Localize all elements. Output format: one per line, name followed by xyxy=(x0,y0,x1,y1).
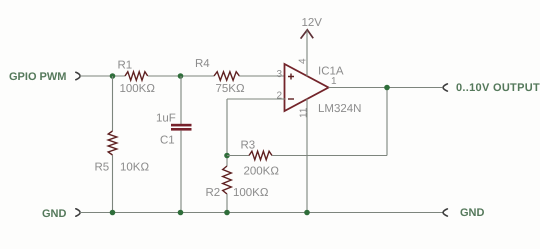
wire op-amp pin 11 to GND xyxy=(306,99,308,213)
supply 12V arrow xyxy=(301,30,314,39)
wire inverting node vertical upper xyxy=(226,99,228,166)
svg-text:C1: C1 xyxy=(160,135,175,147)
svg-text:LM324N: LM324N xyxy=(318,103,361,115)
svg-text:75KΩ: 75KΩ xyxy=(216,83,245,95)
svg-text:100KΩ: 100KΩ xyxy=(233,187,269,199)
wire GPIO PWM to R1 xyxy=(80,75,125,77)
wire R5 branch vertical xyxy=(112,76,114,131)
svg-text:3: 3 xyxy=(277,69,283,80)
node junction A (R1 left / R5 top) xyxy=(110,73,116,79)
resistor R3 xyxy=(249,151,272,160)
resistor R5 xyxy=(108,131,117,155)
wire GND bus xyxy=(80,212,443,214)
resistor R2 xyxy=(223,166,232,194)
wire op-amp pin 2 horizontal xyxy=(227,98,285,100)
svg-text:R4: R4 xyxy=(195,58,210,70)
wire R5 to GND xyxy=(112,155,114,213)
svg-text:R3: R3 xyxy=(241,140,256,152)
wire op-amp output xyxy=(329,87,443,89)
svg-text:11: 11 xyxy=(299,107,310,118)
wire C1 branch upper xyxy=(180,76,182,124)
wire R3 left segment xyxy=(227,155,249,157)
node junction GND-R5 xyxy=(110,210,116,216)
svg-text:1: 1 xyxy=(331,76,337,87)
node junction B (C1 top) xyxy=(178,73,184,79)
wire R1 to R4 xyxy=(148,75,214,77)
node junction D (output / feedback) xyxy=(384,85,390,91)
wire R3 right segment xyxy=(272,155,387,157)
svg-text:R2: R2 xyxy=(206,187,221,199)
svg-text:12V: 12V xyxy=(302,17,323,29)
node junction GND-pin11 xyxy=(304,210,310,216)
node junction C (R3 left / R2 top) xyxy=(224,153,230,159)
svg-text:10KΩ: 10KΩ xyxy=(120,162,149,174)
svg-text:R5: R5 xyxy=(95,162,110,174)
svg-text:200KΩ: 200KΩ xyxy=(244,166,280,178)
node junction GND-C1 xyxy=(178,210,184,216)
svg-text:R1: R1 xyxy=(118,60,133,72)
svg-text:GPIO PWM: GPIO PWM xyxy=(9,71,66,83)
resistor R4 xyxy=(214,72,239,81)
wire 12V to op-amp pin 4 xyxy=(306,31,308,77)
capacitor C1 xyxy=(171,124,192,131)
wire C1 to GND xyxy=(180,131,182,213)
node junction GND-R2 xyxy=(224,210,230,216)
svg-text:GND: GND xyxy=(42,208,67,220)
port connector 0..10V OUTPUT xyxy=(443,84,447,91)
resistor R1 xyxy=(125,72,148,81)
svg-text:GND: GND xyxy=(460,207,485,219)
port connector GND left xyxy=(76,209,80,216)
svg-text:1uF: 1uF xyxy=(156,113,176,125)
wire R4 to op-amp pin 3 xyxy=(239,75,285,77)
port connector GPIO PWM xyxy=(76,72,80,79)
port connector GND right xyxy=(443,209,447,216)
svg-text:2: 2 xyxy=(277,91,283,102)
wire R2 to GND xyxy=(226,194,228,213)
op-amp plus sign xyxy=(288,74,294,80)
svg-text:0..10V OUTPUT: 0..10V OUTPUT xyxy=(456,82,540,94)
wire feedback vertical xyxy=(386,88,388,156)
op-amp minus sign xyxy=(288,98,294,100)
svg-text:100KΩ: 100KΩ xyxy=(120,83,156,95)
op-amp U1 triangle IC1A xyxy=(285,64,329,111)
